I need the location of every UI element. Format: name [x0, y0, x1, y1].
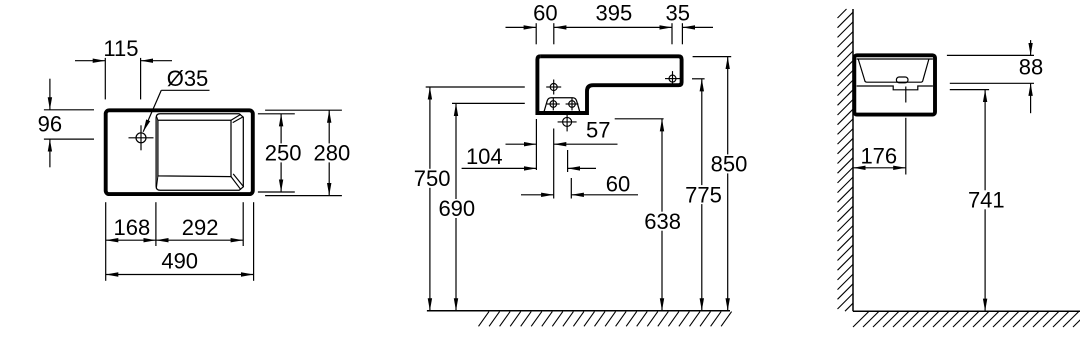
svg-text:395: 395	[596, 0, 633, 25]
svg-text:292: 292	[182, 215, 219, 240]
svg-text:96: 96	[38, 112, 62, 137]
svg-text:115: 115	[103, 36, 138, 61]
svg-text:176: 176	[860, 143, 897, 168]
svg-text:Ø35: Ø35	[167, 66, 209, 91]
svg-text:60: 60	[606, 172, 630, 197]
svg-text:35: 35	[665, 0, 689, 25]
svg-text:690: 690	[438, 196, 475, 221]
svg-text:60: 60	[533, 0, 557, 25]
svg-text:57: 57	[586, 118, 610, 143]
svg-text:490: 490	[161, 249, 198, 274]
svg-text:638: 638	[644, 209, 681, 234]
svg-text:750: 750	[414, 166, 451, 191]
svg-text:250: 250	[265, 141, 302, 166]
svg-text:168: 168	[114, 215, 151, 240]
svg-text:850: 850	[711, 152, 748, 177]
svg-text:741: 741	[968, 188, 1005, 213]
svg-text:280: 280	[314, 141, 351, 166]
svg-text:775: 775	[685, 182, 722, 207]
svg-text:88: 88	[1019, 55, 1043, 80]
svg-text:104: 104	[466, 144, 503, 169]
